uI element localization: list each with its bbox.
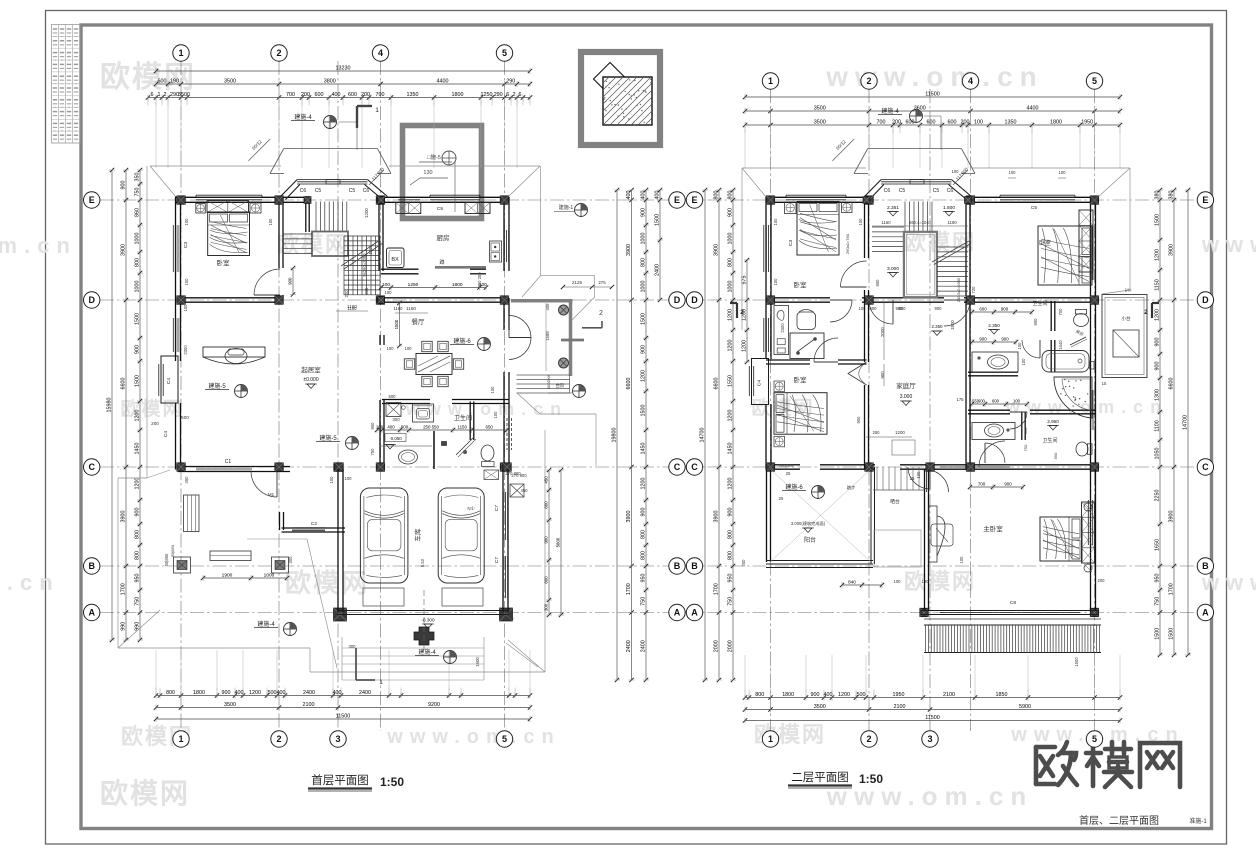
svg-text:1:50: 1:50 [380,775,404,789]
svg-text:500: 500 [389,394,397,399]
svg-text:m.cn: m.cn [0,570,60,595]
svg-text:www.om.cn: www.om.cn [825,61,1044,92]
rp section mark 2 [730,303,744,318]
svg-text:800: 800 [641,258,647,267]
svg-text:100: 100 [974,119,983,125]
svg-text:406: 406 [545,303,550,311]
svg-text:1000: 1000 [641,233,647,245]
svg-text:2: 2 [164,92,167,98]
stair first floor [283,202,384,312]
right plan top grid bubbles [762,73,1102,89]
svg-text:800: 800 [728,551,734,560]
svg-text:900: 900 [728,208,734,217]
svg-text:1350: 1350 [1005,119,1017,125]
svg-text:600: 600 [870,306,878,311]
bath dims [370,394,509,456]
entry step detail symbol [548,382,586,398]
svg-text:1700: 1700 [626,583,632,595]
right top extension lines [745,129,1120,168]
svg-text:6: 6 [506,92,509,98]
svg-text:1100: 1100 [1155,420,1161,432]
porch roof over bay [248,139,391,185]
svg-text:600: 600 [315,92,324,98]
left plan top dim row overall [154,65,532,74]
rp top detail symbol [878,107,941,150]
rp wall dims [779,323,861,468]
svg-text:900: 900 [544,536,549,544]
svg-text:100: 100 [345,476,353,481]
svg-text:200: 200 [151,421,159,426]
svg-text:14700: 14700 [1183,415,1189,430]
svg-text:2: 2 [513,92,516,98]
svg-text:900: 900 [1001,336,1009,341]
svg-text:卫生间: 卫生间 [1032,300,1047,307]
svg-text:2: 2 [276,48,281,58]
rp bedroom3 wardrobe [0,0,1,1]
svg-text:C3: C3 [183,242,189,248]
svg-text:900: 900 [288,277,293,285]
svg-text:C: C [674,462,681,472]
svg-text:2400: 2400 [655,264,661,276]
entry L-wall with C2 [280,512,346,532]
svg-text:200: 200 [301,92,310,98]
big dark watermark 欧模网 [1036,741,1180,787]
svg-text:E: E [674,195,680,205]
rp bedroom3 bed [774,381,827,447]
svg-text:900: 900 [135,345,141,354]
svg-text:250 550: 250 550 [423,424,439,429]
square A annotations [410,151,456,212]
svg-text:3: 3 [927,734,932,744]
svg-text:D: D [88,295,95,305]
svg-text:1:50: 1:50 [859,772,883,786]
svg-text:990: 990 [121,622,127,631]
title first floor plan [308,773,404,791]
svg-text:N①: N① [467,506,475,511]
svg-text:6600: 6600 [121,378,127,390]
svg-text:1450: 1450 [641,443,647,455]
left plan bottom dims majors [154,702,532,711]
svg-text:600: 600 [927,119,936,125]
rp left col 2 [714,188,722,682]
svg-text:C6: C6 [884,188,891,194]
svg-text:50|850: 50|850 [170,544,175,557]
svg-text:19800: 19800 [612,428,618,443]
wall D bedroom [178,298,281,302]
bedroom1 nightstand left [196,204,206,214]
rp family pointed door [848,302,964,455]
highlight square A (detail callout left plan) [403,126,482,219]
svg-text:卧室: 卧室 [1039,239,1051,247]
corridor label [890,476,1025,505]
svg-text:1000: 1000 [728,233,734,245]
svg-text:2.351: 2.351 [887,205,899,211]
svg-text:2000: 2000 [728,640,734,652]
svg-text:100: 100 [1013,398,1021,403]
svg-text:1700: 1700 [714,583,720,595]
wall top-right (E) [377,197,508,202]
hall door [0,0,1,1]
svg-text:1160: 1160 [881,220,891,225]
svg-text:260.4=1040: 260.4=1040 [909,220,931,225]
svg-text:900: 900 [135,508,141,517]
svg-text:575: 575 [742,276,748,285]
svg-text:A: A [674,608,681,618]
svg-text:750: 750 [370,448,375,456]
right terrace [1102,288,1147,387]
svg-text:om.cn: om.cn [0,233,77,258]
svg-text:650: 650 [1023,427,1028,434]
svg-text:1%: 1% [1125,288,1132,293]
svg-text:1200: 1200 [728,410,734,422]
svg-text:6: 6 [519,92,522,98]
svg-text:1200: 1200 [641,478,647,490]
svg-text:建施-4: 建施-4 [294,113,312,121]
svg-text:130: 130 [423,170,432,176]
rp family door1 [869,300,893,324]
left plan roof overhang outline [118,166,595,672]
svg-text:1: 1 [178,734,183,744]
svg-text:台阶: 台阶 [556,382,565,389]
svg-text:1200: 1200 [838,692,850,698]
svg-text:1150: 1150 [1155,279,1161,291]
svg-text:建施-4: 建施-4 [257,620,275,628]
svg-text:1250: 1250 [408,282,419,288]
svg-text:400: 400 [333,690,342,696]
svg-text:2400: 2400 [641,640,647,652]
dining label [394,301,425,348]
svg-text:E: E [89,195,95,205]
left plan bottom dims minors [154,688,532,699]
bay window left plan [281,180,388,200]
svg-text:1500: 1500 [641,313,647,325]
svg-text:5: 5 [1092,76,1097,86]
svg-text:1500: 1500 [475,657,480,667]
svg-text:BX: BX [391,257,399,263]
axis lines 1-5 left plan [181,61,505,731]
svg-text:卧室: 卧室 [794,375,808,384]
rp wall D [766,298,1096,302]
svg-text:建施-4: 建施-4 [418,648,436,656]
svg-text:C4: C4 [163,431,169,437]
right plan top dim majors [743,105,1122,114]
right plan bottom overall [743,715,1122,724]
svg-text:□施-5: □施-5 [427,153,441,161]
rp bedroom2 wardrobe [1079,210,1093,272]
wall left exterior [176,197,181,470]
rp wall top-left (E) [766,197,865,202]
svg-text:3900: 3900 [1169,511,1175,523]
svg-text:C1: C1 [225,459,232,465]
rp bath divider vert [1051,340,1055,372]
fridge BX [387,248,405,268]
wall top-left (E) [175,197,307,202]
kitchen counter pass [435,259,486,267]
svg-text:1650: 1650 [1155,539,1161,551]
svg-text:5: 5 [1092,734,1097,744]
svg-text:起居室: 起居室 [301,365,321,374]
rp wall top-right (E) [972,197,1099,202]
svg-text:900: 900 [222,690,231,696]
level mark entry [510,473,528,497]
svg-text:900: 900 [811,692,820,698]
svg-text:1160: 1160 [947,220,957,225]
kitchen dims [379,272,488,291]
rp left col 1 [700,188,708,682]
svg-text:600: 600 [992,398,1000,403]
rp family hall label [896,381,916,406]
bedroom1 nightstand right [250,203,261,213]
svg-text:C5: C5 [1031,205,1037,211]
svg-text:www: www [1201,232,1256,257]
svg-text:2: 2 [276,734,281,744]
rp left col 3 [728,188,736,682]
svg-text:1: 1 [158,92,161,98]
bedroom1 door [254,269,280,295]
left plan top grid bubbles [173,45,513,61]
svg-text:100: 100 [382,282,390,288]
svg-text:1200: 1200 [728,478,734,490]
svg-text:1800: 1800 [193,690,205,696]
svg-text:100: 100 [184,278,189,286]
bedroom1 right wall [279,203,283,298]
svg-text:600: 600 [348,92,357,98]
middle letter bubble pairs [669,192,703,621]
svg-text:2.350: 2.350 [932,324,944,329]
rp left col 4 stub [742,258,750,364]
svg-text:400: 400 [655,191,661,200]
rp right col outer [1183,188,1191,657]
garage corner mark [356,648,383,686]
svg-text:5: 5 [502,734,507,744]
svg-text:A: A [691,608,698,618]
svg-text:500: 500 [181,415,189,420]
svg-text:1800: 1800 [452,92,464,98]
svg-text:9200: 9200 [428,702,440,708]
rp study desk [774,306,824,359]
kitchen sink [490,241,502,262]
svg-text:11500: 11500 [925,715,940,721]
svg-text:欧模网: 欧模网 [285,568,369,598]
left wall niche [159,356,178,403]
svg-text:800: 800 [714,191,720,200]
svg-text:3.000(建筑完成面): 3.000(建筑完成面) [791,520,826,527]
living detail symbol2 [316,434,359,450]
rp stair right wall [966,203,970,296]
kitchen label [437,233,450,242]
rp hall door bottom [908,467,930,489]
deck hatch band [924,619,1101,653]
svg-text:400: 400 [641,191,647,200]
svg-text:200: 200 [892,119,901,125]
living label [301,365,321,389]
svg-text:C5: C5 [315,188,322,194]
svg-text:1500: 1500 [1155,628,1161,640]
left plan top dim row minors [146,92,532,106]
svg-text:700: 700 [286,92,295,98]
svg-text:建施-6: 建施-6 [785,483,803,491]
svg-text:2: 2 [866,76,871,86]
svg-text:±0.000: ±0.000 [303,377,318,383]
svg-text:350: 350 [135,173,141,182]
svg-text:3900: 3900 [714,511,720,523]
mid col dim 2 [626,188,634,682]
svg-text:200: 200 [741,559,746,567]
svg-text:1200: 1200 [728,340,734,352]
svg-text:欧模网: 欧模网 [904,230,976,255]
section mark 1 top [357,106,379,128]
svg-text:B: B [691,561,698,571]
svg-text:3900: 3900 [121,511,127,523]
svg-text:600: 600 [906,119,915,125]
rp bedroom1 bed [797,202,850,256]
svg-text:400: 400 [332,92,341,98]
svg-text:275: 275 [598,280,606,285]
columns right plan [766,196,1099,617]
svg-text:600: 600 [899,306,907,311]
svg-text:100: 100 [268,218,273,226]
title block text [1079,814,1207,827]
svg-text:900: 900 [641,345,647,354]
detail symbol top bay [291,113,357,150]
svg-text:100: 100 [894,579,902,584]
svg-text:C5: C5 [349,188,356,194]
svg-text:3: 3 [335,734,340,744]
svg-text:1300: 1300 [1155,389,1161,401]
svg-text:50|850: 50|850 [164,553,169,566]
svg-text:1950: 1950 [1081,119,1093,125]
svg-text:1000: 1000 [264,572,275,578]
svg-text:2300: 2300 [183,345,188,355]
svg-text:3500: 3500 [224,78,236,84]
title second floor plan [788,771,883,788]
svg-text:1800: 1800 [452,282,463,288]
detail symbol top-right left plan [554,204,588,217]
kitchen left wall [379,203,383,271]
svg-text:欧模网: 欧模网 [100,778,190,809]
svg-text:小台: 小台 [1121,315,1131,322]
svg-text:1000: 1000 [641,281,647,293]
svg-text:300: 300 [507,616,515,621]
rp study door [830,300,852,322]
svg-text:1: 1 [375,107,379,114]
dining dims [387,306,499,419]
scattered small dims [164,218,1105,649]
svg-text:A: A [88,608,95,618]
master door [927,441,1006,492]
svg-text:2100: 2100 [894,704,906,710]
svg-text:3500: 3500 [814,119,826,125]
svg-text:600: 600 [544,576,549,584]
svg-text:首层平面图: 首层平面图 [311,773,369,787]
svg-text:D: D [691,295,698,305]
svg-text:100: 100 [952,169,960,174]
svg-text:380: 380 [1155,191,1161,200]
svg-text:0.52: 0.52 [420,558,425,567]
svg-text:100: 100 [959,556,964,564]
svg-text:C: C [88,462,95,472]
svg-text:700: 700 [877,119,886,125]
svg-text:900: 900 [935,306,943,311]
NO text garage [467,506,475,511]
svg-text:100: 100 [1059,170,1067,175]
rp wall left exterior [766,197,771,470]
svg-text:2125: 2125 [572,280,583,285]
svg-text:200: 200 [361,92,370,98]
svg-text:900: 900 [641,508,647,517]
svg-text:11500: 11500 [336,713,351,719]
svg-text:建施-4: 建施-4 [881,107,899,115]
svg-text:750: 750 [641,597,647,606]
svg-text:450: 450 [544,476,549,484]
svg-text:400: 400 [824,692,833,698]
left plan top dim row majors [154,78,532,87]
svg-text:15980: 15980 [107,398,113,413]
svg-text:2: 2 [866,734,871,744]
svg-text:230.5x2=2050: 230.5x2=2050 [957,278,961,302]
svg-text:2.350: 2.350 [988,323,1000,328]
svg-text:D: D [1202,295,1209,305]
svg-text:1200: 1200 [135,410,141,422]
svg-text:100: 100 [1017,342,1022,350]
svg-text:3500: 3500 [178,92,190,98]
bathroom first floor [379,403,512,480]
svg-text:720: 720 [971,286,976,294]
svg-text:260x1=780: 260x1=780 [845,233,850,254]
living detail symbol [205,382,248,398]
left letter bubbles [84,192,100,621]
svg-text:厨房: 厨房 [437,233,450,242]
svg-text:4400: 4400 [1027,105,1039,111]
svg-text:25: 25 [786,471,791,476]
svg-text:800: 800 [135,551,141,560]
svg-text:1200: 1200 [895,430,905,435]
svg-text:800: 800 [641,530,647,539]
svg-text:200: 200 [1098,578,1106,583]
left col dim mid [121,168,129,642]
svg-text:400: 400 [626,191,632,200]
rp bedroom1 label [788,240,807,289]
svg-text:11500: 11500 [925,91,940,97]
svg-text:1250: 1250 [481,92,493,98]
svg-text:1450: 1450 [728,443,734,455]
svg-text:270 800: 270 800 [505,471,521,476]
svg-text:3900: 3900 [626,511,632,523]
rp bathroom middle [970,300,1094,418]
svg-text:6600: 6600 [714,378,720,390]
right plan top dim overall [743,91,1122,100]
svg-text:200: 200 [961,119,970,125]
kitchen counters [396,203,490,214]
svg-text:C6: C6 [300,188,307,194]
svg-text:840: 840 [848,579,856,584]
svg-text:300DX6: 300DX6 [546,374,551,389]
svg-text:100: 100 [184,218,189,226]
svg-text:C8: C8 [1010,600,1016,606]
rp bedroom1 door [841,261,867,287]
svg-text:5800: 5800 [556,537,561,547]
svg-text:100: 100 [376,424,384,429]
svg-text:建施-6: 建施-6 [453,337,471,345]
kitchen bottom wall [381,269,486,274]
svg-text:C3: C3 [788,240,794,246]
svg-text:100: 100 [916,471,921,479]
window label C3 [183,242,189,248]
left col dim fine [135,168,143,642]
svg-text:14700: 14700 [700,428,706,443]
svg-text:100: 100 [329,476,334,484]
svg-text:欧模网: 欧模网 [120,397,183,420]
